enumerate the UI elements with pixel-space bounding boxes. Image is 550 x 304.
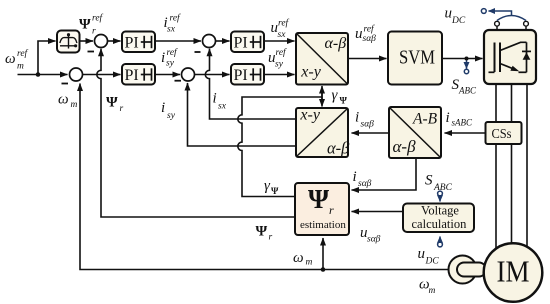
voltage calculation block xyxy=(403,204,474,233)
svg-text:PI: PI xyxy=(125,67,139,84)
wire flux program to sum1 xyxy=(80,40,94,42)
svg-text:r: r xyxy=(120,104,124,114)
wire CSs to A-B block xyxy=(445,132,486,134)
transform block A-B to alpha-beta xyxy=(389,107,441,158)
induction motor IM xyxy=(484,243,543,302)
svg-text:ref: ref xyxy=(17,48,29,59)
svg-text:m: m xyxy=(17,62,24,72)
svg-text:sx: sx xyxy=(278,30,287,40)
CSs current sensors block xyxy=(486,122,522,144)
wire phase line B xyxy=(511,84,513,244)
minus sign sum3 xyxy=(195,51,201,53)
svg-text:u: u xyxy=(418,246,426,262)
node branch to flux program xyxy=(36,72,41,77)
u_DC blue arrow into voltage calc bottom xyxy=(438,237,443,247)
svg-text:Ψ: Ψ xyxy=(256,224,268,240)
label u_sy ref xyxy=(268,47,287,70)
wire i_sx feedback to sum3 xyxy=(205,49,296,119)
svg-text:x-y: x-y xyxy=(300,63,321,80)
wire phase line A xyxy=(495,84,497,250)
svg-text:i: i xyxy=(161,50,165,66)
wire phase line C xyxy=(526,84,528,248)
summing junction sum3 xyxy=(203,35,216,48)
flux program block (field weakening curve) xyxy=(57,31,80,53)
svg-text:r: r xyxy=(269,233,273,243)
svg-text:sx: sx xyxy=(167,25,176,35)
label u_DC lower xyxy=(418,246,440,267)
svg-text:DC: DC xyxy=(425,257,440,267)
label Psi_r left xyxy=(106,95,124,115)
svg-text:sy: sy xyxy=(166,59,175,69)
svg-text:ref: ref xyxy=(170,13,182,24)
svg-text:i: i xyxy=(161,100,165,116)
svg-text:ω: ω xyxy=(293,250,304,266)
svg-text:Voltage: Voltage xyxy=(421,204,459,218)
label u_sab ref xyxy=(355,24,376,45)
svg-text:α-β: α-β xyxy=(327,138,350,157)
svg-text:PI: PI xyxy=(234,35,248,52)
transform block xy to alpha-beta xyxy=(296,33,348,85)
label omega_m below sum2 xyxy=(58,92,78,111)
wire sum2 to PI2 xyxy=(83,74,121,76)
transform block alpha-beta to xy xyxy=(296,106,350,157)
wire sum3 to PI3 xyxy=(216,40,230,42)
svg-text:sαβ: sαβ xyxy=(358,179,372,189)
wire omega_m up into estimator xyxy=(322,238,324,270)
svg-text:m: m xyxy=(306,258,313,268)
svg-text:ref: ref xyxy=(364,24,376,35)
label i_sABC xyxy=(446,110,473,128)
wire gamma_psi arrow down into ab-xy block xyxy=(321,88,323,107)
svg-text:PI: PI xyxy=(125,35,139,52)
svg-text:Ψ: Ψ xyxy=(308,184,329,214)
wire PI4 to xy-ab block xyxy=(264,74,295,76)
svg-text:sαβ: sαβ xyxy=(363,34,377,44)
PI controller PI2 xyxy=(122,64,155,85)
svg-text:sy: sy xyxy=(167,111,176,121)
summing junction sum1 xyxy=(95,35,108,48)
label u_sx ref xyxy=(271,18,290,41)
svg-text:ω: ω xyxy=(5,51,16,67)
label gamma_psi right xyxy=(332,88,348,107)
svg-text:sy: sy xyxy=(275,60,284,70)
svg-text:u: u xyxy=(445,6,453,22)
svg-text:calculation: calculation xyxy=(412,217,468,231)
svg-text:γ: γ xyxy=(332,88,339,104)
inverter top terminal leads xyxy=(496,26,498,30)
wire sum1 to PI1 xyxy=(108,40,121,42)
svg-text:ref: ref xyxy=(278,18,290,29)
wire gamma_psi double arrow between transform blocks xyxy=(321,86,323,104)
svg-text:S: S xyxy=(425,173,433,189)
svg-text:sABC: sABC xyxy=(452,118,473,128)
label omega_m ref xyxy=(5,48,29,72)
label S_ABC top xyxy=(452,77,477,96)
svg-text:Ψ: Ψ xyxy=(271,187,279,197)
svg-text:m: m xyxy=(429,286,436,296)
node S_ABC tap xyxy=(465,57,469,61)
wire gamma_psi from estimator to transform blocks xyxy=(238,97,322,197)
svg-text:α-β: α-β xyxy=(325,35,347,52)
wire PI2 to sum4 xyxy=(155,74,180,76)
svg-text:r: r xyxy=(92,27,96,37)
label u_DC top xyxy=(445,6,466,27)
PI controller PI4 xyxy=(231,64,264,85)
svg-text:i: i xyxy=(213,91,217,107)
svg-text:ref: ref xyxy=(276,47,288,58)
minus sign sum2 xyxy=(62,83,69,85)
label omega_m bottom right xyxy=(419,277,436,297)
label i_sab lower xyxy=(353,169,372,189)
minus sign sum4 xyxy=(175,80,182,82)
label S_ABC mid xyxy=(425,173,453,194)
wire sum4 to PI4 xyxy=(195,74,230,76)
summing junction sum2 xyxy=(70,68,83,81)
svg-text:m: m xyxy=(71,100,78,110)
inverter top terminal circles xyxy=(495,21,500,26)
svg-text:sαβ: sαβ xyxy=(367,235,381,245)
S_ABC blue arrow into voltage calc xyxy=(438,191,443,201)
label gamma_psi left xyxy=(264,178,279,197)
u_DC measurement blue arc and arrow xyxy=(481,9,526,21)
label omega_m near estimator xyxy=(293,250,313,268)
flux estimator block xyxy=(295,183,349,235)
label i_sx xyxy=(213,91,227,112)
PI controller PI1 xyxy=(122,32,155,53)
wire A-B to ab-xy block xyxy=(352,132,390,134)
svg-text:γ: γ xyxy=(264,178,271,194)
svg-text:r: r xyxy=(329,203,334,217)
label Psi_r ref xyxy=(79,13,104,37)
SVM block xyxy=(388,32,442,85)
svg-text:ω: ω xyxy=(58,92,69,108)
svg-text:estimation: estimation xyxy=(300,219,346,231)
svg-text:Ψ: Ψ xyxy=(79,17,91,33)
label u_sab xyxy=(360,225,381,245)
svg-text:Ψ: Ψ xyxy=(106,95,118,111)
label Psi_r bottom xyxy=(256,224,273,243)
minus sign sum1 xyxy=(88,51,95,53)
svg-text:IM: IM xyxy=(497,254,530,289)
svg-text:ref: ref xyxy=(167,47,179,58)
svg-text:α-β: α-β xyxy=(393,137,417,156)
label i_sx ref xyxy=(164,13,182,35)
wire branch up to flux program xyxy=(38,41,56,75)
label i_sab mid xyxy=(355,110,374,130)
wire PI1 to sum3 xyxy=(155,40,201,42)
wire i_sy feedback to sum4 xyxy=(188,83,297,146)
svg-text:i: i xyxy=(446,110,450,126)
svg-text:i: i xyxy=(355,110,359,126)
svg-text:x-y: x-y xyxy=(299,106,320,123)
summing junction sum4 xyxy=(182,68,195,81)
svg-text:DC: DC xyxy=(451,16,466,26)
svg-text:Ψ: Ψ xyxy=(340,97,348,107)
inverter block xyxy=(484,30,536,84)
wire psi_r feedback to sum1 xyxy=(97,49,295,217)
svg-text:i: i xyxy=(353,169,357,185)
svg-text:u: u xyxy=(355,26,363,42)
svg-text:ref: ref xyxy=(92,13,104,24)
svg-text:sαβ: sαβ xyxy=(361,120,375,130)
wire A-B down and left to flux estimator i_sab xyxy=(352,158,417,190)
svg-text:PI: PI xyxy=(234,67,248,84)
wire omega_m_ref input xyxy=(18,74,68,76)
svg-text:ABC: ABC xyxy=(458,86,477,96)
label i_sy xyxy=(161,100,176,121)
label i_sy ref xyxy=(161,47,178,69)
PI controller PI3 xyxy=(231,32,264,53)
speed sensor coupling circle xyxy=(449,256,477,284)
wire voltage calc to estimator u_sab xyxy=(352,211,404,213)
wire PI3 to xy-ab block xyxy=(264,40,295,42)
S_ABC measurement blue arrow from SVM wire xyxy=(464,61,468,74)
node omega_m branch to estimator xyxy=(321,267,326,272)
wire omega_m feedback from motor xyxy=(80,84,449,270)
svg-text:A-B: A-B xyxy=(412,110,438,127)
svg-text:ABC: ABC xyxy=(433,183,453,193)
svg-text:SVM: SVM xyxy=(399,47,435,69)
svg-text:CSs: CSs xyxy=(492,126,512,141)
shaft bar xyxy=(457,263,486,277)
wire xy-ab block to SVM xyxy=(348,58,387,60)
wire SVM to inverter xyxy=(442,58,483,60)
svg-text:sx: sx xyxy=(218,102,227,112)
